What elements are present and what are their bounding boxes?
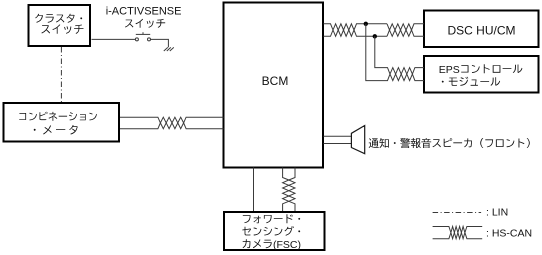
wire: CAN branch to EPS (outer leg) xyxy=(366,24,387,81)
block: cluster switch box (クラスタ・スイッチ) xyxy=(29,5,91,46)
label: speaker name 通知・警報音スピーカ（フロント） xyxy=(369,138,530,148)
label: i-ACTIVSENSE switch name xyxy=(106,6,182,28)
wire: switch to ground xyxy=(151,39,169,47)
twisted pair: HS-CAN junction to DSC HU/CM xyxy=(387,24,424,37)
twisted pair: HS-CAN junction to EPS control module xyxy=(387,68,424,81)
wire: LIN bus cluster switch to combination meter (dash-dot) xyxy=(60,47,62,102)
svg-text:: LIN: : LIN xyxy=(486,207,508,219)
svg-text:BCM: BCM xyxy=(262,74,289,88)
svg-text:DSC HU/CM: DSC HU/CM xyxy=(448,23,516,37)
node: junction on CAN low wire xyxy=(373,34,377,38)
legend: HS-CAN twisted pair sample xyxy=(433,227,483,239)
svg-text:(FSC): (FSC) xyxy=(273,239,301,251)
block: BCM box xyxy=(224,3,324,168)
node: junction on CAN high wire xyxy=(364,22,368,26)
wire: BCM to warning speaker (two leads) xyxy=(324,136,352,143)
block: EPS control module box (EPSコントロール・モジュール) xyxy=(424,56,539,93)
svg-text:EPS: EPS xyxy=(439,64,460,76)
switch: i-ACTIVSENSE momentary switch xyxy=(135,32,150,41)
speaker: notification/warning speaker horn xyxy=(351,126,364,154)
wire: BCM to FSC direct line xyxy=(253,168,255,212)
block: forward sensing camera box (フォワード・センシング・カメラ FSC) xyxy=(224,212,325,251)
svg-text:: HS-CAN: : HS-CAN xyxy=(486,227,532,239)
block: combination meter box (コンビネーション・メータ) xyxy=(4,103,120,142)
ground: chassis ground symbol xyxy=(164,47,174,51)
twisted pair: HS-CAN BCM to FSC (vertical) xyxy=(283,168,295,212)
block: DSC HU/CM box xyxy=(424,11,539,48)
legend: LIN line style sample xyxy=(433,212,482,214)
wire: cluster switch box to switch contact xyxy=(92,38,136,40)
twisted pair: HS-CAN BCM to junction xyxy=(324,24,366,37)
twisted pair: HS-CAN combination meter to BCM xyxy=(120,117,224,129)
svg-text:i-ACTIVSENSE: i-ACTIVSENSE xyxy=(106,6,182,18)
wire: junction to DSC twist segment xyxy=(366,24,387,37)
wire: CAN branch to EPS (inner leg) xyxy=(375,36,387,67)
